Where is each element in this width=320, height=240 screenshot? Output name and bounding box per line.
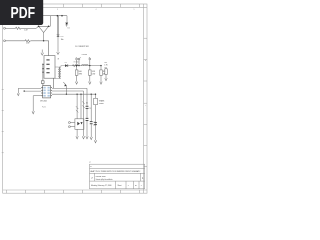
svg-text:XFMR: XFMR	[99, 103, 104, 105]
svg-text:PULSER: PULSER	[82, 54, 88, 56]
svg-text:OHM: OHM	[78, 73, 82, 75]
svg-text:TRANS: TRANS	[99, 100, 105, 103]
svg-text:5: 5	[134, 9, 135, 11]
svg-text:ADAPT 5V DC POWER SUPPLY FOR I: ADAPT 5V DC POWER SUPPLY FOR INVERTER CI…	[91, 170, 141, 173]
svg-text:DC CONVERT XFR: DC CONVERT XFR	[75, 46, 89, 48]
svg-text:8: 8	[58, 59, 59, 61]
svg-text:1W: 1W	[104, 67, 106, 69]
svg-text:PDF: PDF	[11, 5, 36, 22]
svg-text:Monday, February 27, 2006: Monday, February 27, 2006	[91, 184, 112, 187]
svg-text:p: p	[90, 162, 91, 164]
svg-text:4: 4	[96, 9, 97, 11]
svg-text:0.5W: 0.5W	[92, 73, 95, 75]
svg-text:2.2M: 2.2M	[24, 30, 27, 32]
svg-text:Revised Some: Revised Some	[96, 176, 107, 178]
svg-text:Sheet: Sheet	[118, 184, 122, 187]
svg-text:2.2M: 2.2M	[26, 42, 29, 44]
svg-text:Schematic by Big Idea and Anot: Schematic by Big Idea and Another	[96, 178, 113, 181]
svg-text:Part 1: Part 1	[42, 105, 47, 108]
svg-text:R1 100: R1 100	[74, 62, 79, 64]
svg-text:MOC3021: MOC3021	[40, 101, 47, 103]
svg-text:3: 3	[57, 9, 58, 11]
